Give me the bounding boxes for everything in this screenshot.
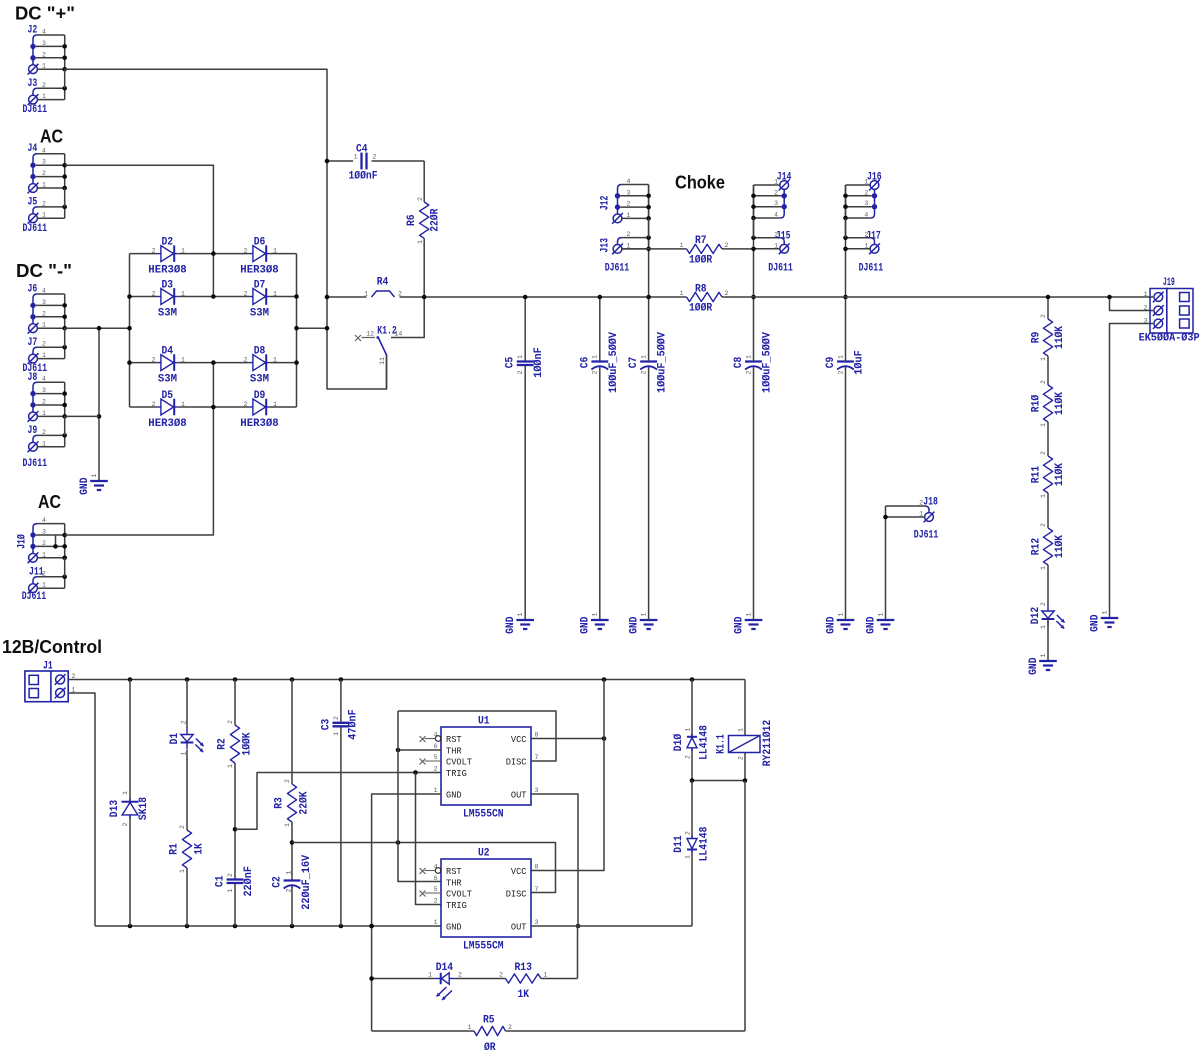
svg-text:3: 3 xyxy=(864,200,868,207)
svg-text:4: 4 xyxy=(42,29,46,36)
svg-text:1: 1 xyxy=(738,728,745,732)
svg-text:2: 2 xyxy=(42,540,46,547)
svg-text:2: 2 xyxy=(42,399,46,406)
svg-text:ØR: ØR xyxy=(484,1042,496,1053)
svg-text:HER3Ø8: HER3Ø8 xyxy=(240,418,279,430)
svg-text:D2: D2 xyxy=(162,237,174,249)
wire TRIG net to U1 xyxy=(235,773,441,830)
wire R12 link xyxy=(1047,493,1049,528)
resistor R9 (110K) xyxy=(1043,319,1052,356)
wire bus link J14-J15 xyxy=(753,218,755,238)
wire K1.2 pin 11 bottom xyxy=(386,356,388,390)
svg-text:4: 4 xyxy=(864,212,868,219)
svg-text:U1: U1 xyxy=(478,716,490,728)
svg-text:2: 2 xyxy=(227,720,234,724)
svg-text:LM555CN: LM555CN xyxy=(463,809,504,821)
wire R12 to D12 xyxy=(1047,565,1049,605)
wire DC- row to bridge left xyxy=(65,327,130,329)
diode D7 (S3M) xyxy=(253,289,266,305)
svg-text:D13: D13 xyxy=(109,799,121,817)
wire D10 column xyxy=(691,680,693,737)
svg-text:4: 4 xyxy=(627,178,631,185)
svg-text:1: 1 xyxy=(181,401,185,408)
connector J13 xyxy=(618,238,622,245)
svg-text:1: 1 xyxy=(42,410,46,417)
svg-text:R6: R6 xyxy=(406,214,418,226)
wire column C6 xyxy=(599,297,601,362)
svg-text:J9: J9 xyxy=(28,425,38,437)
svg-text:J8: J8 xyxy=(28,372,38,384)
svg-text:1: 1 xyxy=(181,357,185,364)
wire THR chain down to U2 xyxy=(398,711,441,882)
svg-text:GND: GND xyxy=(1089,614,1101,632)
svg-text:RST: RST xyxy=(446,866,462,877)
svg-text:47ØnF: 47ØnF xyxy=(348,709,360,740)
svg-text:1ØØnF: 1ØØnF xyxy=(533,347,545,378)
svg-text:1: 1 xyxy=(179,869,186,873)
svg-text:SK18: SK18 xyxy=(138,797,150,821)
capacitor C2 (220uF_16V) xyxy=(284,879,301,881)
svg-text:2: 2 xyxy=(180,720,187,724)
connector J14 (DJ611) xyxy=(780,181,789,190)
resistor R12 (110K) xyxy=(1043,528,1052,565)
diode D11 (LL4148) xyxy=(687,839,697,849)
capacitor C5 (100nF) xyxy=(517,360,534,362)
ground GND (C7) xyxy=(640,619,658,621)
svg-text:14: 14 xyxy=(395,331,403,338)
svg-text:C7: C7 xyxy=(628,357,640,369)
U1 RST pin (nc, bubble) xyxy=(435,736,441,742)
diode D3 (S3M) xyxy=(161,289,174,305)
svg-text:22ØnF: 22ØnF xyxy=(243,866,255,897)
resistor R7 (100R) xyxy=(687,244,723,253)
svg-text:1: 1 xyxy=(680,242,684,249)
wire column C8/J14 bus xyxy=(753,185,755,362)
svg-text:1: 1 xyxy=(273,291,277,298)
svg-text:2: 2 xyxy=(286,889,293,893)
svg-text:DJ611: DJ611 xyxy=(768,263,793,275)
junction dots J10/J11 bus xyxy=(62,533,67,538)
svg-text:CVOLT: CVOLT xyxy=(446,756,472,767)
resistor R6 (220R) xyxy=(420,202,429,238)
svg-text:1: 1 xyxy=(364,291,368,298)
connector J5 xyxy=(33,207,37,214)
ground GND (J19 pin3) xyxy=(1101,617,1119,619)
connector J3 xyxy=(33,88,37,95)
svg-text:1: 1 xyxy=(42,582,46,589)
svg-text:AC: AC xyxy=(40,126,63,147)
svg-text:J15: J15 xyxy=(776,230,791,242)
svg-text:GND: GND xyxy=(446,921,462,932)
wire column C9/J16 bus xyxy=(845,185,847,362)
svg-text:RST: RST xyxy=(446,734,462,745)
svg-text:1: 1 xyxy=(434,919,438,926)
svg-text:DJ611: DJ611 xyxy=(914,530,939,542)
svg-text:J1: J1 xyxy=(43,661,53,673)
svg-text:DISC: DISC xyxy=(506,756,527,767)
junction dot U1 THR xyxy=(396,748,401,753)
svg-text:3: 3 xyxy=(535,919,539,926)
svg-text:C8: C8 xyxy=(733,356,745,368)
svg-text:3: 3 xyxy=(42,529,46,536)
svg-text:1: 1 xyxy=(428,972,432,979)
svg-text:8: 8 xyxy=(535,864,539,871)
svg-text:1: 1 xyxy=(1101,610,1108,614)
svg-text:D9: D9 xyxy=(254,390,266,402)
svg-text:C5: C5 xyxy=(505,356,517,368)
svg-text:S3M: S3M xyxy=(250,307,270,319)
svg-text:3: 3 xyxy=(42,299,46,306)
svg-text:1: 1 xyxy=(517,612,524,616)
resistor R10 (110K) xyxy=(1043,385,1052,422)
svg-text:S3M: S3M xyxy=(158,307,178,319)
U1 CVOLT pin (nc) xyxy=(425,760,442,762)
svg-text:2: 2 xyxy=(725,290,729,297)
wire U1 GND left-down xyxy=(372,794,441,1031)
connector J19 (EK500A-03P) xyxy=(1150,289,1167,334)
ground GND (C6) xyxy=(591,619,609,621)
svg-text:1: 1 xyxy=(273,401,277,408)
svg-text:2: 2 xyxy=(227,873,234,877)
svg-text:2: 2 xyxy=(42,429,46,436)
svg-text:D5: D5 xyxy=(162,390,174,402)
svg-text:22ØR: 22ØR xyxy=(430,208,442,232)
svg-text:VCC: VCC xyxy=(511,734,527,745)
svg-text:1: 1 xyxy=(227,888,234,892)
svg-text:VCC: VCC xyxy=(511,866,527,877)
wire row D3 xyxy=(130,296,158,298)
wire D14/R13 row xyxy=(372,978,435,980)
svg-text:11ØK: 11ØK xyxy=(1054,463,1066,487)
junction dots main-left xyxy=(325,159,330,164)
capacitor C9 (10uF) xyxy=(837,360,854,362)
svg-text:R3: R3 xyxy=(274,797,286,809)
svg-text:4: 4 xyxy=(774,212,778,219)
wire bridge left vertical xyxy=(129,254,131,407)
junction dots J16/J17 bus xyxy=(843,194,848,199)
wire J8 feed xyxy=(65,415,99,417)
svg-text:2: 2 xyxy=(592,370,599,374)
svg-text:R11: R11 xyxy=(1031,465,1043,483)
svg-text:1: 1 xyxy=(42,212,46,219)
svg-text:THR: THR xyxy=(446,877,462,888)
svg-text:R5: R5 xyxy=(483,1015,495,1027)
svg-text:5: 5 xyxy=(434,754,438,761)
ground GND (J18) xyxy=(877,619,895,621)
svg-text:1ØØR: 1ØØR xyxy=(689,303,713,315)
junction dots J4/J5 bus xyxy=(62,163,67,168)
svg-text:D4: D4 xyxy=(162,346,174,358)
resistor R2 (100K) xyxy=(230,725,239,763)
ground GND (D12) xyxy=(1039,660,1057,662)
wire U1 THR stub xyxy=(398,749,441,751)
svg-text:1: 1 xyxy=(284,823,291,827)
svg-text:1: 1 xyxy=(122,791,129,795)
svg-text:1: 1 xyxy=(227,764,234,768)
svg-text:D7: D7 xyxy=(254,280,266,292)
svg-text:OUT: OUT xyxy=(511,789,527,800)
svg-text:1: 1 xyxy=(42,440,46,447)
svg-text:7: 7 xyxy=(535,754,539,761)
wire GND chain down xyxy=(369,924,374,929)
svg-text:1: 1 xyxy=(685,727,692,731)
svg-text:Choke: Choke xyxy=(675,172,725,193)
svg-text:J4: J4 xyxy=(28,143,38,155)
svg-text:22ØK: 22ØK xyxy=(299,791,311,815)
svg-text:1: 1 xyxy=(1040,494,1047,498)
connector J16 (DJ611) xyxy=(870,181,879,190)
diode D2 (HER308) xyxy=(161,246,174,262)
diode D6 (HER308) xyxy=(253,246,266,262)
op-amp U2 (LM555CM) box xyxy=(441,859,531,937)
svg-text:1: 1 xyxy=(627,212,631,219)
svg-text:2: 2 xyxy=(417,197,424,201)
svg-text:1ØØuF_5ØØV: 1ØØuF_5ØØV xyxy=(762,332,774,393)
svg-text:GND: GND xyxy=(79,477,91,495)
svg-text:1: 1 xyxy=(837,612,844,616)
svg-text:J2: J2 xyxy=(28,25,38,37)
svg-text:11: 11 xyxy=(379,357,386,365)
junction dot R2/C1/TRIG xyxy=(233,827,238,832)
svg-text:GND: GND xyxy=(1028,657,1040,675)
svg-text:2: 2 xyxy=(244,291,248,298)
svg-text:1: 1 xyxy=(91,473,98,477)
junction dot R3/C2/THR xyxy=(290,840,295,845)
svg-text:1: 1 xyxy=(42,93,46,100)
svg-text:2: 2 xyxy=(42,82,46,89)
wire bus link J16-J17 xyxy=(845,218,847,238)
wire J10 pins 2-3 stub xyxy=(55,535,57,546)
svg-text:1: 1 xyxy=(864,242,868,249)
svg-text:D3: D3 xyxy=(162,280,174,292)
svg-text:2: 2 xyxy=(42,200,46,207)
junction dot TRIG branch xyxy=(413,770,418,775)
svg-text:D8: D8 xyxy=(254,346,266,358)
connector J7 xyxy=(33,347,37,354)
svg-text:2: 2 xyxy=(122,822,129,826)
svg-text:J13: J13 xyxy=(599,238,611,253)
svg-text:1ØØR: 1ØØR xyxy=(689,255,713,267)
svg-text:D11: D11 xyxy=(673,835,685,853)
svg-text:1: 1 xyxy=(919,511,923,518)
wire bus link J4-J5 xyxy=(64,188,66,207)
svg-text:1: 1 xyxy=(837,355,844,359)
svg-text:1: 1 xyxy=(354,154,358,161)
svg-text:2: 2 xyxy=(284,779,291,783)
svg-text:2: 2 xyxy=(837,370,844,374)
svg-text:2: 2 xyxy=(333,716,340,720)
wire bus link J12-J13 xyxy=(648,218,650,237)
svg-text:1: 1 xyxy=(1040,653,1047,657)
svg-text:1: 1 xyxy=(592,355,599,359)
ground GND (C8) xyxy=(745,619,763,621)
svg-text:2: 2 xyxy=(627,201,631,208)
svg-text:DJ611: DJ611 xyxy=(605,263,630,275)
svg-text:2: 2 xyxy=(745,370,752,374)
svg-text:J1Ø: J1Ø xyxy=(16,534,28,549)
connector J15 xyxy=(780,238,784,245)
wire TRIG chain to U2 xyxy=(416,773,442,905)
wire bus link J6-J7 xyxy=(64,328,66,347)
svg-text:2: 2 xyxy=(42,170,46,177)
U2 CVOLT pin (nc) xyxy=(425,892,442,894)
wire row D2 xyxy=(130,253,158,255)
svg-text:DJ611: DJ611 xyxy=(23,223,48,235)
resistor R8 (100R) xyxy=(687,292,723,301)
svg-text:GND: GND xyxy=(628,616,640,634)
svg-text:C2: C2 xyxy=(272,876,284,888)
svg-text:2: 2 xyxy=(1040,602,1047,606)
connector J17 xyxy=(871,238,875,245)
svg-text:4: 4 xyxy=(42,517,46,524)
svg-text:1: 1 xyxy=(42,551,46,558)
svg-text:1: 1 xyxy=(181,291,185,298)
wire main line right segment xyxy=(722,296,1153,298)
svg-text:DJ611: DJ611 xyxy=(23,104,48,116)
svg-text:2: 2 xyxy=(152,357,156,364)
wire J19 pin3 to ground xyxy=(1110,324,1154,619)
wire K1.2 pin 14 up to main line xyxy=(409,297,424,338)
junction dots J6/J7 bus xyxy=(62,303,67,308)
wire main line middle segment xyxy=(400,296,687,298)
connector J1 (terminal block) xyxy=(25,671,68,702)
svg-text:OUT: OUT xyxy=(511,921,527,932)
svg-text:1: 1 xyxy=(1144,291,1148,298)
svg-text:3: 3 xyxy=(535,787,539,794)
connector J6 (DJ611) xyxy=(33,294,37,324)
svg-text:7: 7 xyxy=(535,886,539,893)
svg-text:12: 12 xyxy=(366,331,374,338)
svg-text:1: 1 xyxy=(680,290,684,297)
wire D10/K1.1 junction row xyxy=(692,780,745,782)
connector J4 (DJ611) xyxy=(33,154,37,184)
diode D14 (LED) xyxy=(442,973,450,984)
diode D13 (SK18) xyxy=(122,803,138,815)
svg-text:1: 1 xyxy=(1040,625,1047,629)
svg-text:J17: J17 xyxy=(866,230,881,242)
svg-text:11ØK: 11ØK xyxy=(1054,392,1066,416)
wire row D4 xyxy=(130,362,158,364)
svg-text:1: 1 xyxy=(181,248,185,255)
svg-text:2: 2 xyxy=(627,231,631,238)
junction dots D14 row xyxy=(369,976,374,981)
svg-text:S3M: S3M xyxy=(158,373,178,385)
wire VCC vertical x604 xyxy=(531,680,604,871)
svg-text:4: 4 xyxy=(42,147,46,154)
svg-text:1: 1 xyxy=(544,972,548,979)
wire J19 pin2 xyxy=(1110,297,1154,311)
svg-text:DC "-": DC "-" xyxy=(16,260,72,281)
svg-text:2: 2 xyxy=(373,154,377,161)
svg-text:GND: GND xyxy=(825,616,837,634)
svg-text:2: 2 xyxy=(42,51,46,58)
svg-text:1: 1 xyxy=(333,732,340,736)
relay contact K1.2 xyxy=(355,335,361,341)
svg-text:J11: J11 xyxy=(29,567,44,579)
connector J18 (DJ611) xyxy=(925,506,929,513)
svg-text:S3M: S3M xyxy=(250,373,270,385)
wire bus link J2-J3 xyxy=(64,69,66,88)
svg-text:1: 1 xyxy=(180,751,187,755)
svg-text:D6: D6 xyxy=(254,237,266,249)
ground GND (C9) xyxy=(837,619,855,621)
svg-text:22ØuF_16V: 22ØuF_16V xyxy=(301,854,313,909)
svg-text:11ØK: 11ØK xyxy=(1054,326,1066,350)
svg-text:2: 2 xyxy=(434,898,438,905)
resistor R3 (220K) xyxy=(287,784,296,822)
svg-text:R1Ø: R1Ø xyxy=(1031,394,1043,412)
svg-text:U2: U2 xyxy=(478,848,490,860)
diode D5 (HER308) xyxy=(161,399,174,415)
svg-text:D1: D1 xyxy=(169,732,181,744)
svg-text:D1Ø: D1Ø xyxy=(673,733,685,751)
junction dot THR chain cross xyxy=(396,840,401,845)
svg-text:6: 6 xyxy=(434,875,438,882)
connector J12 (DJ611) xyxy=(618,185,622,214)
wire bus link J8-J9 xyxy=(64,416,66,435)
svg-text:1: 1 xyxy=(273,357,277,364)
svg-text:AC: AC xyxy=(38,491,61,512)
svg-text:DJ611: DJ611 xyxy=(22,591,47,603)
svg-text:C1: C1 xyxy=(215,875,227,887)
svg-text:THR: THR xyxy=(446,745,462,756)
svg-text:2: 2 xyxy=(458,972,462,979)
svg-text:HER3Ø8: HER3Ø8 xyxy=(148,418,187,430)
svg-text:2: 2 xyxy=(499,972,503,979)
wire R7 row left xyxy=(622,248,687,250)
junction dot U1 VCC xyxy=(602,736,607,741)
wire D13 column xyxy=(129,680,131,802)
svg-text:J14: J14 xyxy=(777,172,792,184)
svg-text:1: 1 xyxy=(42,63,46,70)
svg-text:1: 1 xyxy=(774,242,778,249)
svg-text:J16: J16 xyxy=(867,172,882,184)
wire DC- ground drop xyxy=(98,328,100,481)
svg-text:1: 1 xyxy=(42,352,46,359)
svg-text:1: 1 xyxy=(417,240,424,244)
diode D4 (S3M) xyxy=(161,355,174,371)
wire R6 bottom stub xyxy=(423,238,425,297)
connector J9 xyxy=(33,435,37,442)
svg-text:TRIG: TRIG xyxy=(446,900,467,911)
capacitor C7 (100uF_500V) xyxy=(640,360,657,362)
capacitor C4 (100nF) xyxy=(360,153,362,170)
connector J11 xyxy=(33,577,37,584)
svg-text:D12: D12 xyxy=(1030,607,1042,624)
wire bus link J10-J11 xyxy=(64,558,66,577)
svg-text:6: 6 xyxy=(434,743,438,750)
svg-text:2: 2 xyxy=(1040,314,1047,318)
connector J2 (DJ611) xyxy=(33,35,37,65)
svg-text:C9: C9 xyxy=(825,357,837,369)
svg-text:DJ611: DJ611 xyxy=(23,458,48,470)
svg-text:1: 1 xyxy=(42,182,46,189)
junction dots J2/J3 bus xyxy=(62,44,67,49)
svg-text:3: 3 xyxy=(627,189,631,196)
wire R11 link xyxy=(1047,422,1049,456)
ground GND (DC- input) xyxy=(90,480,108,482)
svg-text:2: 2 xyxy=(1040,380,1047,384)
svg-text:12B/Control: 12B/Control xyxy=(2,636,102,657)
svg-text:TRIG: TRIG xyxy=(446,768,467,779)
svg-text:GND: GND xyxy=(865,616,877,634)
svg-text:LL4148: LL4148 xyxy=(699,725,711,760)
wire R13 up to OUT row xyxy=(577,926,579,979)
junction dots bridge xyxy=(127,294,132,299)
wire column C5 xyxy=(524,297,526,362)
svg-text:2: 2 xyxy=(42,341,46,348)
svg-text:2: 2 xyxy=(517,370,524,374)
